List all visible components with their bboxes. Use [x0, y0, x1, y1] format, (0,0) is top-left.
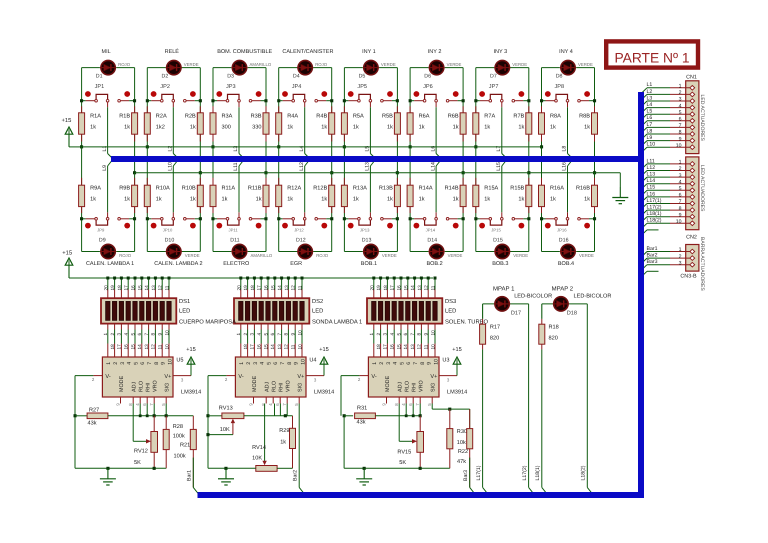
resistor R11A: [212, 178, 214, 185]
svg-text:CALEN. LAMBDA 1: CALEN. LAMBDA 1: [86, 261, 134, 267]
ground right: [619, 173, 621, 187]
svg-text:3: 3: [679, 260, 682, 266]
svg-text:11: 11: [291, 344, 296, 349]
wire net Bar1: [192, 450, 194, 488]
svg-text:D13: D13: [362, 238, 372, 244]
svg-text:1k: 1k: [190, 196, 196, 203]
svg-text:20: 20: [369, 285, 374, 291]
svg-text:1k: 1k: [518, 123, 524, 130]
svg-text:LED: LED: [312, 309, 323, 315]
svg-text:JP3: JP3: [226, 84, 236, 90]
potentiometer RV14: [256, 466, 277, 472]
svg-text:L17(2): L17(2): [522, 465, 528, 480]
svg-text:INY 1: INY 1: [362, 49, 376, 55]
wire top rails column 7: [476, 67, 494, 69]
svg-text:L10: L10: [168, 162, 174, 171]
svg-text:RV15: RV15: [397, 450, 411, 456]
svg-text:Bar3: Bar3: [647, 259, 658, 265]
junction column 6 +15 rail: [409, 145, 412, 148]
svg-text:CUERPO MARIPOSA: CUERPO MARIPOSA: [179, 319, 236, 326]
wire net L4 to CN1 pin 4: [641, 108, 647, 114]
svg-text:1: 1: [103, 333, 108, 336]
svg-text:V-: V-: [238, 374, 243, 380]
svg-text:L7: L7: [647, 122, 653, 128]
svg-text:11: 11: [165, 285, 170, 290]
junction column 8 +15 rail: [540, 145, 543, 148]
svg-text:16: 16: [257, 344, 262, 350]
wire MPAP2 left leg / resistor R18: [541, 304, 543, 319]
svg-text:1: 1: [679, 84, 682, 90]
svg-text:R4A: R4A: [287, 113, 298, 119]
svg-text:INY 2: INY 2: [428, 49, 442, 55]
svg-text:JP11: JP11: [229, 228, 239, 233]
svg-text:SIG: SIG: [298, 383, 304, 392]
svg-text:47k: 47k: [457, 458, 466, 465]
wire spare bus exit below CN2: [641, 230, 647, 236]
svg-text:L9: L9: [647, 135, 653, 141]
svg-text:U4: U4: [309, 358, 316, 364]
svg-text:L5: L5: [647, 109, 653, 115]
svg-text:11: 11: [298, 285, 303, 290]
svg-text:17: 17: [257, 285, 262, 291]
potentiometer RV12: [153, 416, 155, 432]
svg-text:RV14: RV14: [252, 445, 266, 451]
svg-text:D7: D7: [490, 74, 497, 80]
svg-text:JP15: JP15: [491, 228, 501, 233]
junction column 7 ground rail: [527, 171, 530, 174]
wire net L17(2) to CN2 pin 8: [641, 210, 647, 216]
svg-text:+15: +15: [62, 251, 72, 257]
svg-text:1k: 1k: [518, 196, 524, 203]
wire net L8 to CN1 pin 8: [641, 134, 647, 140]
svg-text:L15: L15: [647, 185, 656, 191]
svg-text:R30: R30: [457, 429, 467, 435]
svg-text:13: 13: [417, 285, 422, 291]
svg-text:1k: 1k: [256, 196, 262, 203]
resistor R10B: [199, 178, 201, 185]
LED D3: [231, 67, 247, 69]
bus vertical right: [638, 92, 644, 498]
svg-text:2: 2: [679, 90, 682, 96]
svg-text:VERDE: VERDE: [447, 62, 462, 67]
svg-text:6: 6: [273, 362, 279, 365]
svg-text:R28: R28: [173, 424, 183, 430]
svg-text:17: 17: [383, 344, 388, 350]
svg-text:8: 8: [284, 333, 289, 336]
svg-text:5: 5: [399, 362, 405, 365]
wire node block2: [244, 415, 293, 417]
svg-text:330: 330: [252, 124, 261, 130]
svg-text:JP6: JP6: [423, 84, 433, 90]
svg-text:5: 5: [396, 333, 401, 336]
resistor R4B: [331, 106, 333, 113]
svg-text:R29: R29: [279, 428, 289, 434]
svg-text:BARRA ACTUADORES: BARRA ACTUADORES: [699, 237, 705, 291]
svg-text:VERDE: VERDE: [184, 62, 199, 67]
IC U5 LM3914: [102, 357, 173, 397]
svg-text:7: 7: [413, 362, 419, 365]
svg-text:3: 3: [120, 362, 126, 365]
resistor R21: [192, 416, 194, 430]
resistor R7A: [475, 106, 477, 113]
svg-text:5: 5: [263, 333, 268, 336]
svg-text:CN1: CN1: [686, 75, 697, 81]
wire net L17(1): [482, 349, 484, 487]
wire net L14 to CN2 pin 4: [641, 184, 647, 190]
svg-text:8: 8: [679, 130, 682, 136]
svg-text:3: 3: [679, 97, 682, 103]
jumper JP15: [479, 223, 485, 229]
svg-text:L13: L13: [647, 172, 656, 178]
svg-text:R31: R31: [357, 406, 367, 412]
junction column 1 ground rail: [133, 171, 136, 174]
svg-text:RLO: RLO: [272, 381, 278, 392]
svg-text:LED: LED: [179, 309, 190, 315]
resistor R9A: [81, 178, 83, 185]
bus bottom horizontal: [198, 492, 645, 498]
wire ground rail: [135, 172, 621, 174]
svg-text:1k: 1k: [280, 439, 286, 446]
junction column 7 +15 rail: [474, 145, 477, 148]
svg-text:D18: D18: [567, 311, 577, 317]
svg-text:U3: U3: [442, 358, 449, 364]
svg-text:RHI: RHI: [146, 383, 152, 392]
wire net L12 to bus: [304, 212, 306, 217]
svg-text:L6: L6: [647, 115, 653, 121]
svg-text:R5A: R5A: [353, 113, 364, 119]
svg-text:L16: L16: [562, 162, 568, 171]
svg-text:15: 15: [270, 285, 275, 291]
svg-text:7: 7: [147, 362, 153, 365]
svg-text:V-: V-: [105, 374, 110, 380]
svg-text:1k: 1k: [484, 196, 490, 203]
svg-text:2: 2: [379, 362, 385, 365]
svg-text:R14B: R14B: [445, 186, 459, 192]
svg-text:8: 8: [420, 362, 426, 365]
svg-text:JP7: JP7: [489, 84, 499, 90]
LED D2: [166, 67, 182, 69]
svg-text:13: 13: [144, 344, 149, 350]
junction column 6 ground rail: [462, 171, 465, 174]
svg-text:18: 18: [250, 285, 255, 291]
svg-text:13: 13: [277, 344, 282, 350]
wire net L2 to CN1 pin 2: [641, 94, 647, 100]
junction column 3 ground rail: [264, 171, 267, 174]
junction column 5 +15 rail: [343, 145, 346, 148]
svg-text:L18(1): L18(1): [647, 211, 662, 217]
svg-text:17: 17: [117, 344, 122, 350]
wire bottom rails column 4: [278, 147, 280, 185]
svg-text:R12A: R12A: [287, 186, 301, 192]
svg-text:ROJO: ROJO: [315, 62, 328, 67]
wire net L13 to CN2 pin 3: [641, 177, 647, 183]
svg-text:1k: 1k: [550, 196, 556, 203]
title PARTE N 1: [606, 41, 698, 67]
LED D1: [100, 67, 116, 69]
svg-text:LED: LED: [445, 309, 456, 315]
svg-text:LED ACTUADORES: LED ACTUADORES: [699, 95, 705, 142]
resistor R1A: [81, 106, 83, 113]
svg-text:D5: D5: [359, 74, 366, 80]
U4 bottom pin stubs: [253, 397, 255, 404]
svg-text:1k: 1k: [584, 123, 590, 130]
svg-text:12: 12: [291, 285, 296, 291]
svg-text:12: 12: [284, 344, 289, 350]
wire net L1 to CN1 pin 1: [641, 88, 647, 94]
svg-text:2: 2: [679, 254, 682, 260]
svg-text:15: 15: [403, 285, 408, 291]
svg-text:CN2: CN2: [686, 235, 697, 241]
resistor R12B: [331, 178, 333, 185]
svg-text:L18(2): L18(2): [647, 218, 662, 224]
wire net L11 to bus: [238, 212, 240, 217]
U5 bottom pin stubs: [120, 397, 122, 404]
svg-text:20: 20: [236, 285, 241, 291]
junction JP8 rails: [540, 99, 543, 102]
svg-text:JP14: JP14: [426, 228, 436, 233]
svg-text:5K: 5K: [399, 460, 406, 466]
svg-text:RV12: RV12: [134, 449, 148, 455]
LED D16: [560, 251, 576, 253]
svg-text:R10B: R10B: [182, 186, 196, 192]
junction JP12 rails: [277, 217, 280, 220]
svg-text:L17(2): L17(2): [647, 205, 662, 211]
svg-text:1: 1: [369, 333, 374, 336]
wire U3 V- pin 2: [359, 375, 368, 377]
svg-text:1k: 1k: [190, 123, 196, 130]
svg-text:R7B: R7B: [513, 113, 524, 119]
svg-text:V-: V-: [371, 374, 376, 380]
wire net L15 to CN2 pin 5: [641, 190, 647, 196]
svg-text:15: 15: [137, 285, 142, 291]
svg-text:1k: 1k: [222, 196, 228, 203]
svg-text:3: 3: [383, 333, 388, 336]
svg-text:13: 13: [151, 285, 156, 291]
svg-text:D6: D6: [424, 74, 431, 80]
resistor R3B: [265, 106, 267, 113]
wire U5 V- rail down: [74, 416, 76, 469]
svg-text:L12: L12: [647, 165, 656, 171]
svg-text:ADJ: ADJ: [132, 382, 138, 392]
svg-text:+15: +15: [62, 118, 72, 124]
svg-text:L18(2): L18(2): [581, 465, 587, 480]
svg-text:JP13: JP13: [360, 228, 370, 233]
svg-text:LM3914: LM3914: [181, 390, 201, 396]
resistor R13A: [343, 178, 345, 185]
svg-text:14: 14: [410, 285, 415, 291]
wire U3 V+ to +15: [439, 375, 457, 377]
svg-text:3: 3: [386, 362, 392, 365]
wire net L8 to bus: [567, 102, 569, 107]
LED D13: [363, 251, 379, 253]
svg-text:7: 7: [679, 123, 682, 129]
wire net L6 to bus: [435, 102, 437, 107]
svg-text:ADJ: ADJ: [265, 382, 271, 392]
svg-text:10: 10: [164, 330, 169, 336]
svg-text:VRO: VRO: [286, 380, 292, 392]
wire net L4 to bus: [304, 102, 306, 107]
wire net L10 to bus: [172, 212, 174, 217]
svg-text:2: 2: [243, 333, 248, 336]
svg-text:6: 6: [403, 333, 408, 336]
junction JP16 rails: [540, 217, 543, 220]
svg-text:DS2: DS2: [312, 298, 323, 305]
junction column 4 ground rail: [330, 171, 333, 174]
svg-text:12: 12: [417, 344, 422, 350]
svg-text:16: 16: [131, 285, 136, 291]
resistor R30: [449, 409, 451, 429]
resistor R31: [344, 415, 353, 417]
wire net L12 to CN2 pin 2: [641, 171, 647, 177]
junction JP10 rails: [146, 217, 149, 220]
wire top rails column 1: [82, 67, 100, 69]
svg-text:1: 1: [372, 362, 378, 365]
svg-text:LM3914: LM3914: [447, 390, 467, 396]
svg-text:R8A: R8A: [550, 113, 561, 119]
svg-text:10: 10: [167, 359, 173, 365]
svg-text:17: 17: [250, 344, 255, 350]
svg-text:16: 16: [390, 344, 395, 350]
svg-text:R14A: R14A: [419, 186, 433, 192]
resistor R8A: [541, 106, 543, 113]
svg-text:4: 4: [124, 333, 129, 336]
svg-text:L17(1): L17(1): [647, 198, 662, 204]
potentiometer RV13: [208, 415, 222, 417]
wire DS1 top pins: [107, 278, 109, 290]
svg-text:R27: R27: [89, 407, 99, 413]
resistor R6A: [409, 106, 411, 113]
wire bar display supply rail: [69, 277, 433, 279]
wire net L1 to bus: [107, 102, 109, 107]
svg-text:VERDE: VERDE: [512, 62, 527, 67]
junction column 5 ground rail: [396, 171, 399, 174]
svg-text:SONDA LAMBDA 1: SONDA LAMBDA 1: [312, 319, 362, 326]
resistor R5B: [396, 106, 398, 113]
svg-text:BOB.4: BOB.4: [558, 261, 574, 267]
resistor R28: [165, 416, 167, 430]
svg-text:18: 18: [383, 285, 388, 291]
wire bottom rails column 3: [212, 147, 214, 185]
junction column 4 +15 rail: [277, 145, 280, 148]
svg-text:R6A: R6A: [419, 113, 430, 119]
svg-text:6: 6: [406, 362, 412, 365]
wire U4 V+ to +15: [306, 375, 324, 377]
svg-text:D17: D17: [511, 311, 521, 317]
svg-text:1k: 1k: [419, 123, 425, 130]
svg-text:R13B: R13B: [379, 186, 393, 192]
wire U4 V- rail down: [207, 416, 209, 469]
wire bottom rails column 6: [409, 147, 411, 185]
LED D15: [494, 251, 510, 253]
svg-text:R15B: R15B: [510, 186, 524, 192]
svg-text:15: 15: [130, 344, 135, 350]
svg-text:1k: 1k: [124, 123, 130, 130]
svg-text:MODE: MODE: [252, 375, 258, 392]
wire net L9 to CN1 pin 9: [641, 141, 647, 147]
svg-text:19: 19: [376, 285, 381, 291]
svg-text:10: 10: [676, 143, 682, 149]
svg-text:18: 18: [376, 344, 381, 350]
resistor R29: [292, 416, 294, 429]
wire net L15 to bus: [501, 212, 503, 217]
svg-text:R1A: R1A: [90, 113, 101, 119]
wire bottom rails column 5: [343, 147, 345, 185]
wire U5 V+ to +15: [173, 375, 191, 377]
svg-text:R2A: R2A: [156, 113, 167, 119]
resistor R2B: [199, 106, 201, 113]
svg-text:L12: L12: [299, 162, 305, 171]
svg-text:D11: D11: [230, 238, 239, 244]
svg-text:10k: 10k: [457, 439, 466, 446]
svg-text:3: 3: [253, 362, 259, 365]
IC U4 LM3914: [235, 357, 306, 397]
svg-text:1k: 1k: [419, 196, 425, 203]
ground block3: [363, 468, 365, 479]
svg-text:16: 16: [124, 344, 129, 350]
svg-text:2: 2: [246, 362, 252, 365]
svg-text:LED-BICOLOR: LED-BICOLOR: [574, 293, 612, 299]
svg-text:6: 6: [679, 193, 682, 199]
svg-text:820: 820: [490, 336, 499, 342]
ground block1: [107, 468, 109, 479]
svg-text:9: 9: [679, 136, 682, 142]
resistor R22: [469, 409, 471, 429]
resistor R4A: [278, 106, 280, 113]
svg-text:5K: 5K: [134, 460, 141, 466]
wire net L16 to bus: [567, 212, 569, 217]
svg-text:5: 5: [266, 362, 272, 365]
jumper JP11: [216, 223, 222, 229]
svg-text:SIG: SIG: [165, 383, 171, 392]
svg-text:14: 14: [403, 344, 408, 350]
svg-text:MPAP 2: MPAP 2: [552, 286, 574, 293]
svg-text:R2B: R2B: [185, 113, 196, 119]
svg-text:JP8: JP8: [555, 84, 565, 90]
svg-text:JP9: JP9: [97, 228, 105, 233]
svg-text:6: 6: [137, 333, 142, 336]
jumper JP12: [282, 223, 288, 229]
svg-text:RLO: RLO: [139, 381, 145, 392]
svg-text:10: 10: [430, 330, 435, 336]
LED D5: [363, 67, 379, 69]
resistor R5A: [343, 106, 345, 113]
wire +15 rail: [82, 146, 542, 148]
svg-text:1k: 1k: [287, 196, 293, 203]
svg-text:9: 9: [161, 362, 167, 365]
svg-text:L14: L14: [430, 162, 436, 171]
svg-text:1k: 1k: [584, 196, 590, 203]
svg-text:AMARILLO: AMARILLO: [251, 253, 273, 258]
wire net L14 to bus: [435, 212, 437, 217]
svg-text:19: 19: [110, 285, 115, 291]
svg-text:D14: D14: [427, 238, 437, 244]
svg-text:CN3-B: CN3-B: [680, 274, 697, 280]
resistor R1B: [134, 106, 136, 113]
svg-text:6: 6: [140, 362, 146, 365]
svg-text:R18: R18: [549, 325, 559, 331]
svg-text:9: 9: [158, 333, 163, 336]
svg-text:U5: U5: [176, 358, 183, 364]
resistor R2A: [146, 106, 148, 113]
svg-text:MIL: MIL: [102, 49, 111, 55]
wire spare bus exit below CN3-B: [641, 271, 647, 277]
svg-text:5: 5: [679, 186, 682, 192]
wire top rails column 2: [147, 67, 165, 69]
LED D14: [428, 251, 444, 253]
wire net Bar2 to CN3-B pin 2: [641, 258, 647, 264]
svg-text:L11: L11: [647, 158, 655, 164]
svg-text:R3A: R3A: [222, 113, 233, 119]
